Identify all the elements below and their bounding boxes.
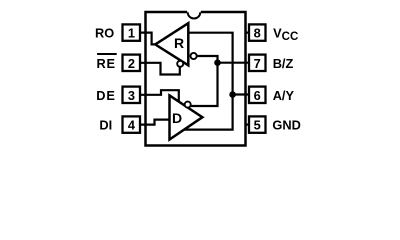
notch (pin-1 orientation notch): [187, 10, 201, 14]
junction dot net A/Y: [229, 91, 236, 98]
pin 3 box: [123, 87, 141, 103]
svg-text:VCC: VCC: [273, 26, 298, 44]
svg-text:B/Z: B/Z: [273, 56, 294, 71]
wire pin3 to driver enable: [140, 90, 179, 103]
svg-text:1: 1: [128, 26, 135, 41]
stub pin5: [245, 123, 250, 125]
svg-text:GND: GND: [272, 118, 300, 133]
svg-text:6: 6: [254, 88, 261, 103]
receiver enable bubble: [177, 61, 183, 67]
wire branch to pin6: [233, 93, 249, 95]
junction dot net B/Z: [214, 59, 221, 66]
pin 4 box: [123, 116, 141, 132]
stub pin8: [245, 31, 250, 33]
svg-text:DE: DE: [96, 88, 115, 103]
receiver inverting input bubble: [191, 53, 197, 59]
svg-text:5: 5: [254, 118, 261, 133]
svg-text:RO: RO: [95, 26, 114, 41]
op-amp D (driver buffer U1b): [170, 95, 203, 139]
pin 7 box: [249, 55, 266, 71]
op-amp R (receiver buffer U1a): [155, 23, 188, 65]
svg-text:R: R: [174, 35, 184, 51]
pin 5 box: [249, 116, 266, 132]
svg-text:4: 4: [128, 118, 136, 133]
svg-text:A/Y: A/Y: [273, 88, 295, 103]
wire pin1 to receiver output: [140, 33, 157, 45]
pin 8 box: [249, 24, 266, 40]
wire branch to pin7: [218, 62, 250, 64]
svg-text:8: 8: [254, 26, 261, 41]
wire pin2 to receiver enable bubble: [140, 63, 180, 75]
wire net A/Y: receiver top input, pin6, driver noninverting output: [183, 33, 232, 130]
pin 1 box: [123, 24, 141, 40]
wire net B/Z: receiver inverting input to driver inverting output: [190, 56, 217, 106]
IC body U1 (8-pin DIP outline): [146, 12, 246, 146]
wire pin4 to driver input: [140, 120, 169, 125]
svg-text:DI: DI: [99, 118, 112, 133]
driver inverting output bubble: [185, 102, 191, 108]
svg-text:RE: RE: [97, 56, 116, 71]
pin 6 box: [249, 87, 266, 103]
svg-text:3: 3: [128, 88, 135, 103]
svg-text:D: D: [172, 110, 182, 126]
svg-text:7: 7: [254, 56, 261, 71]
pin 2 box: [123, 55, 141, 71]
svg-text:2: 2: [128, 56, 135, 71]
